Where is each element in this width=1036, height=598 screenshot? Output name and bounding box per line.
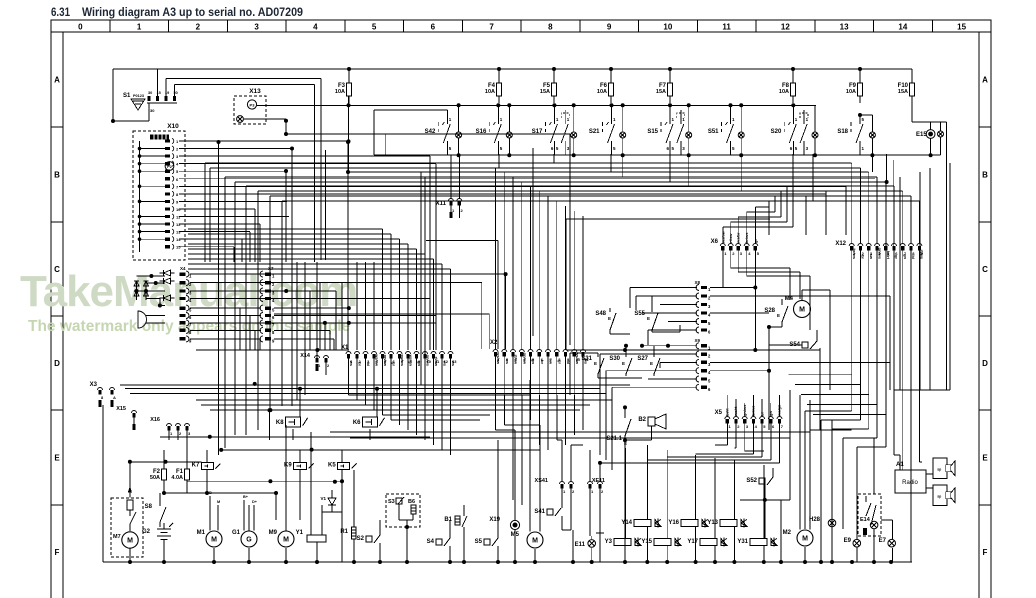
generator G1 <box>232 495 258 562</box>
svg-text:S28: S28 <box>764 308 775 314</box>
wire right elbow set <box>789 375 886 415</box>
connector X10 <box>133 123 185 260</box>
switch S4 <box>427 520 450 562</box>
svg-text:M2: M2 <box>783 530 792 536</box>
valve Y13 <box>707 519 747 528</box>
svg-text:X5: X5 <box>715 410 723 416</box>
svg-text:Wiring diagram A3 up to serial: Wiring diagram A3 up to serial no. AD072… <box>82 5 303 19</box>
svg-text:A: A <box>113 395 116 400</box>
svg-text:gn/sw: gn/sw <box>522 353 527 365</box>
svg-text:F: F <box>55 548 60 557</box>
svg-text:30: 30 <box>150 108 155 113</box>
svg-text:ws/sw: ws/sw <box>375 353 380 367</box>
sensor B1 <box>444 505 467 562</box>
switch S51 with lamp <box>708 105 744 155</box>
svg-text:15: 15 <box>957 23 966 32</box>
wire mid-block frame <box>566 219 770 350</box>
svg-text:ws: ws <box>505 358 510 365</box>
sensor box S3 B6 <box>386 494 420 562</box>
svg-text:bl: bl <box>911 255 916 259</box>
svg-text:X14: X14 <box>300 353 311 359</box>
valve Y17 <box>687 538 727 547</box>
svg-text:B: B <box>982 171 988 180</box>
svg-text:E7: E7 <box>879 538 887 544</box>
svg-text:E: E <box>982 454 988 463</box>
title text <box>51 5 303 19</box>
svg-text:ws: ws <box>443 360 448 367</box>
wire X12 ups <box>852 163 920 243</box>
svg-text:S21: S21 <box>589 129 600 135</box>
svg-text:A: A <box>982 76 988 85</box>
svg-text:Y3: Y3 <box>605 539 613 545</box>
switch S55 <box>634 296 680 332</box>
switch S211 <box>606 405 631 562</box>
wire X2 ups <box>496 168 584 349</box>
svg-text:X9: X9 <box>694 338 700 343</box>
fuse F8 <box>779 69 796 103</box>
svg-text:9: 9 <box>607 23 612 32</box>
svg-text:rt/ws: rt/ws <box>920 250 925 260</box>
solenoid Y1 <box>296 432 326 562</box>
relay K6 <box>353 417 385 427</box>
svg-text:X6: X6 <box>711 239 719 245</box>
svg-text:S20: S20 <box>771 129 782 135</box>
svg-text:0: 0 <box>78 23 83 32</box>
svg-text:X4: X4 <box>180 266 186 271</box>
svg-text:F: F <box>983 548 988 557</box>
svg-text:K8: K8 <box>276 420 284 426</box>
svg-text:P2: P2 <box>167 165 172 169</box>
svg-text:B: B <box>54 171 60 180</box>
svg-text:B+: B+ <box>243 495 249 499</box>
wire X7 drops <box>284 283 342 350</box>
svg-text:M9: M9 <box>269 530 278 536</box>
svg-text:X13: X13 <box>249 88 261 95</box>
svg-text:K9: K9 <box>284 463 292 469</box>
wire X1 drops <box>349 359 451 381</box>
svg-text:D: D <box>982 359 988 368</box>
wire bus2 <box>257 103 816 107</box>
svg-text:sp: sp <box>937 495 941 499</box>
fuse F10 <box>898 69 915 103</box>
svg-text:8: 8 <box>548 23 553 32</box>
wire S42 cols to X11 <box>421 155 498 390</box>
wire X12 staircase <box>805 251 922 563</box>
svg-text:E11: E11 <box>575 542 586 548</box>
svg-text:12: 12 <box>781 23 790 32</box>
wire X1 ups <box>188 229 451 350</box>
svg-text:B: B <box>209 491 212 495</box>
switch S8 <box>145 491 166 527</box>
svg-text:13: 13 <box>176 230 181 235</box>
fuse F2 <box>150 450 167 493</box>
fuse F9 <box>846 69 863 103</box>
svg-text:S30: S30 <box>609 356 620 362</box>
svg-text:E9: E9 <box>844 538 852 544</box>
svg-text:14: 14 <box>898 23 907 32</box>
wire F3 column <box>347 96 351 172</box>
svg-text:10A: 10A <box>485 89 495 95</box>
switch S20 with lamp <box>771 105 818 155</box>
svg-text:M: M <box>211 537 217 544</box>
starter M7 box <box>111 498 143 562</box>
switch S21 with lamp <box>589 105 626 155</box>
fuse F4 <box>485 69 502 103</box>
wire X13 leads <box>244 119 570 168</box>
svg-text:XS41: XS41 <box>535 478 548 484</box>
valve Y31 <box>737 538 777 547</box>
switch S52 <box>740 468 790 539</box>
connector XE11 <box>588 450 626 536</box>
horn B2 <box>625 414 666 440</box>
resistor R1 <box>340 470 356 562</box>
wire relay feeds <box>160 382 540 562</box>
svg-text:M: M <box>799 307 805 314</box>
svg-text:M1: M1 <box>197 530 206 536</box>
connector X1 row <box>341 345 457 367</box>
fuse F3 <box>335 69 352 103</box>
wire F-row bus <box>164 491 278 520</box>
fuse F1 <box>171 437 189 493</box>
diode cluster left <box>134 274 165 328</box>
svg-text:4.0A: 4.0A <box>171 475 183 481</box>
wire long bus y350 left <box>196 348 349 352</box>
diodes V5-V7 <box>160 270 175 301</box>
wire drops below bus3 <box>499 154 889 201</box>
svg-text:M: M <box>532 538 538 545</box>
wire X4 fan <box>190 274 436 339</box>
speaker top <box>933 458 955 479</box>
svg-text:S51: S51 <box>708 129 719 135</box>
switch S18 with lamp <box>837 113 875 155</box>
svg-text:14: 14 <box>176 237 181 242</box>
svg-text:13: 13 <box>840 23 849 32</box>
svg-text:K5: K5 <box>328 463 336 469</box>
svg-text:ws: ws <box>451 360 456 367</box>
speaker bottom <box>933 485 955 506</box>
wire X7 fan left <box>196 274 261 339</box>
svg-text:15A: 15A <box>540 89 550 95</box>
svg-text:sw: sw <box>869 254 874 260</box>
svg-text:br: br <box>861 255 866 259</box>
switch S41 <box>534 498 571 530</box>
svg-text:D+: D+ <box>252 500 258 504</box>
svg-text:ws/gn: ws/gn <box>409 354 414 367</box>
svg-text:Y16: Y16 <box>668 520 679 526</box>
svg-text:E: E <box>622 361 625 366</box>
wire X2 to bottom drops <box>496 395 584 505</box>
connector X5 row <box>715 404 784 429</box>
lamp E7 <box>879 520 896 562</box>
svg-text:S3: S3 <box>388 499 395 505</box>
switch S5 <box>475 440 498 562</box>
wire X7 fan right <box>274 272 508 349</box>
wire row D horizontals <box>120 385 630 410</box>
wire bus risers <box>573 420 821 562</box>
svg-text:50A: 50A <box>150 475 160 481</box>
svg-text:S41: S41 <box>534 509 545 515</box>
wire X8 left fans <box>630 286 890 391</box>
svg-text:H28: H28 <box>809 517 821 523</box>
connector X13 <box>234 88 266 124</box>
connector XS41 <box>535 440 575 505</box>
motor M9 <box>269 425 294 562</box>
svg-text:10A: 10A <box>779 89 789 95</box>
wire valve feeds <box>625 445 764 562</box>
svg-text:10: 10 <box>176 207 181 212</box>
svg-text:K6: K6 <box>353 420 361 426</box>
relay K9 <box>284 463 314 470</box>
svg-text:Y13: Y13 <box>707 520 718 526</box>
wire distribution nest <box>205 163 919 201</box>
lamp H28 <box>809 420 836 562</box>
wire mid drops to K-row <box>219 262 318 455</box>
switch S27 <box>637 346 660 376</box>
switch S15 with lamp <box>647 105 691 155</box>
svg-text:gn/ws: gn/ws <box>426 355 431 367</box>
svg-text:gr: gr <box>392 362 397 366</box>
connector X11 <box>436 199 464 219</box>
svg-text:E: E <box>650 361 653 366</box>
connector X3 <box>90 382 116 407</box>
wire long bus y350 right <box>566 348 820 352</box>
svg-text:E15: E15 <box>916 132 927 138</box>
svg-text:gn/sw: gn/sw <box>383 355 388 367</box>
frame row letters A-F <box>54 76 988 558</box>
frame column numbers 0-15 <box>78 23 966 32</box>
svg-text:ws/sw: ws/sw <box>496 351 501 365</box>
wire S31 region <box>570 353 598 395</box>
svg-text:B6: B6 <box>408 499 415 505</box>
valve Y14 <box>621 519 661 528</box>
svg-text:X2: X2 <box>490 340 498 346</box>
svg-text:M: M <box>217 500 220 504</box>
relay K5 <box>328 463 357 470</box>
svg-text:X12: X12 <box>835 241 846 247</box>
svg-text:4: 4 <box>313 23 318 32</box>
switch S42 with lamp <box>425 105 462 155</box>
wire X6 ups <box>723 182 793 243</box>
svg-text:bl: bl <box>366 362 371 366</box>
svg-text:B1: B1 <box>444 517 452 523</box>
wire left feeders <box>103 405 201 562</box>
svg-text:rt/sw: rt/sw <box>514 355 519 365</box>
wire S54 link <box>819 348 821 430</box>
connector X14 <box>300 350 330 375</box>
connector X9 column <box>694 338 711 392</box>
lamp E9 <box>844 447 861 562</box>
svg-text:15A: 15A <box>898 89 908 95</box>
frame row ticks <box>51 127 991 505</box>
wire X5 ups <box>727 395 779 416</box>
svg-text:6: 6 <box>431 23 436 32</box>
wire right verticals <box>887 122 950 390</box>
connector X12 row <box>835 241 924 260</box>
valve Y16 <box>668 519 708 528</box>
svg-text:E: E <box>54 454 60 463</box>
svg-text:S31: S31 <box>581 356 592 362</box>
switch S2 <box>357 520 380 562</box>
svg-text:XE11: XE11 <box>592 478 605 484</box>
svg-text:gn: gn <box>531 359 536 364</box>
svg-text:5: 5 <box>372 23 377 32</box>
svg-text:X7: X7 <box>268 266 274 271</box>
wire X2 drops <box>496 357 584 396</box>
svg-text:E: E <box>647 316 650 321</box>
svg-text:30: 30 <box>148 91 152 95</box>
svg-text:10A: 10A <box>335 89 345 95</box>
svg-text:V1: V1 <box>320 496 326 501</box>
svg-text:E: E <box>608 316 611 321</box>
svg-text:M: M <box>283 537 289 544</box>
svg-text:S48: S48 <box>595 311 606 317</box>
svg-text:X11: X11 <box>436 201 447 207</box>
lamp E15 <box>912 96 946 155</box>
battery G2 <box>142 523 173 562</box>
relay K7 <box>192 463 221 470</box>
svg-text:gn: gn <box>903 254 908 259</box>
svg-text:S27: S27 <box>637 356 648 362</box>
svg-text:G: G <box>246 537 252 544</box>
wire X5 drops <box>625 424 779 464</box>
motor M1 <box>197 491 222 562</box>
wire K-row horizontals <box>330 432 810 438</box>
svg-text:rt/sw: rt/sw <box>434 357 439 367</box>
svg-text:7: 7 <box>489 23 494 32</box>
svg-text:M5: M5 <box>511 532 520 538</box>
motor M4 <box>785 290 830 390</box>
wire bus3 <box>374 153 941 157</box>
switch S16 with lamp <box>476 105 513 155</box>
svg-text:M7: M7 <box>113 534 121 540</box>
svg-text:gr: gr <box>557 360 562 364</box>
svg-text:X10: X10 <box>167 123 179 130</box>
svg-text:D: D <box>54 359 60 368</box>
svg-text:S4: S4 <box>427 539 435 545</box>
wire X10 fan <box>179 141 875 247</box>
wire center bundle A <box>315 78 436 350</box>
wire top supply bus <box>113 67 912 71</box>
svg-text:gn/ws: gn/ws <box>877 248 882 260</box>
svg-text:B2: B2 <box>638 417 646 423</box>
svg-text:M: M <box>802 536 808 543</box>
svg-text:3: 3 <box>254 23 259 32</box>
svg-text:2: 2 <box>196 23 201 32</box>
radio A1 <box>895 462 933 493</box>
svg-text:S55: S55 <box>634 311 645 317</box>
svg-text:X16: X16 <box>150 417 160 423</box>
svg-text:br: br <box>358 362 363 366</box>
svg-text:Y17: Y17 <box>687 539 698 545</box>
svg-text:Y31: Y31 <box>737 539 748 545</box>
svg-text:br/rt: br/rt <box>886 251 891 260</box>
svg-text:S1: S1 <box>123 93 131 99</box>
svg-text:P3: P3 <box>250 103 256 108</box>
svg-text:E: E <box>777 313 780 318</box>
svg-text:P0123: P0123 <box>133 94 144 98</box>
wire center column 533 <box>533 148 570 345</box>
svg-text:Y14: Y14 <box>621 520 632 526</box>
fuse F6 <box>597 69 614 103</box>
svg-text:gn: gn <box>417 361 422 366</box>
svg-text:br/ws: br/ws <box>852 249 857 260</box>
svg-text:10A: 10A <box>597 89 607 95</box>
motor M5 <box>511 380 543 562</box>
svg-text:10A: 10A <box>846 89 856 95</box>
watermark big <box>20 267 357 316</box>
svg-text:1: 1 <box>137 23 142 32</box>
svg-text:S15: S15 <box>647 129 658 135</box>
svg-text:G2: G2 <box>142 529 151 535</box>
valve Y3 <box>605 538 641 547</box>
diode V1 <box>320 490 342 512</box>
wire ground bus <box>103 560 912 564</box>
wire X1 to bottom drops <box>349 380 531 455</box>
svg-text:X15: X15 <box>116 406 126 412</box>
wire right mid-drops <box>765 186 852 500</box>
watermark small <box>28 318 351 335</box>
svg-text:S2: S2 <box>357 536 365 542</box>
switch S48 <box>595 308 630 334</box>
connector X2 row <box>490 340 590 365</box>
svg-text:E: E <box>594 361 597 366</box>
svg-text:br: br <box>540 360 545 364</box>
wire X4 drops <box>240 283 320 350</box>
svg-text:S5: S5 <box>475 539 483 545</box>
svg-text:6.31: 6.31 <box>51 5 70 19</box>
svg-text:M: M <box>127 538 133 545</box>
svg-text:M4: M4 <box>785 296 794 302</box>
svg-text:X19: X19 <box>489 517 500 523</box>
svg-text:C: C <box>982 265 988 274</box>
valve Y15 <box>641 538 681 547</box>
svg-text:ws: ws <box>349 360 354 367</box>
switch S17 with lamp <box>532 105 577 155</box>
svg-text:15A: 15A <box>656 89 666 95</box>
svg-text:A1: A1 <box>896 462 904 468</box>
svg-text:A: A <box>54 76 60 85</box>
wire X9 fans <box>600 327 890 470</box>
svg-text:sw: sw <box>549 359 554 365</box>
switch S31 <box>581 353 642 378</box>
svg-text:10: 10 <box>663 23 672 32</box>
svg-text:R1: R1 <box>340 529 348 535</box>
connector X19 <box>489 430 519 562</box>
svg-text:Radio: Radio <box>902 480 918 486</box>
wire nest verticals right <box>886 163 950 390</box>
wire S42 feed box <box>374 110 447 155</box>
connector X4 column <box>180 266 193 343</box>
svg-text:S8: S8 <box>145 504 153 510</box>
svg-text:12: 12 <box>176 222 181 227</box>
connector X8 column <box>694 280 711 335</box>
svg-text:gr: gr <box>894 255 899 259</box>
connector X15 <box>116 406 136 430</box>
wire X10 internal bus <box>138 141 165 252</box>
switch S30 <box>609 344 632 376</box>
svg-text:X8: X8 <box>694 280 700 285</box>
connector X6 row <box>711 230 760 256</box>
fuse F7 <box>656 69 673 103</box>
connector X7 column <box>260 266 275 343</box>
switch S54 <box>769 330 817 349</box>
svg-text:E14: E14 <box>860 517 871 523</box>
svg-text:G1: G1 <box>232 530 241 536</box>
svg-text:11: 11 <box>722 23 731 32</box>
switch S28 <box>764 299 788 329</box>
motor M2 <box>783 411 813 562</box>
wire X6 drops <box>723 251 810 331</box>
